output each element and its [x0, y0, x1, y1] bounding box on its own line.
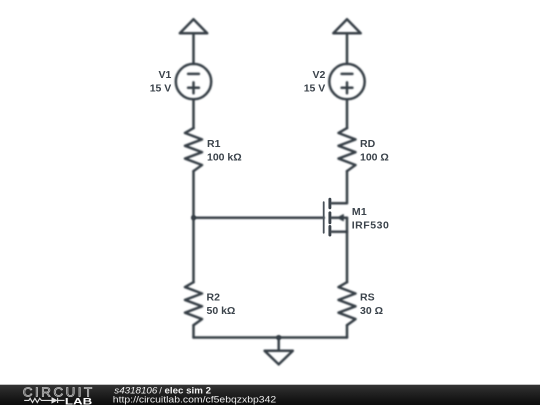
- resistor R2: [185, 282, 202, 325]
- wire ground stem: [277, 338, 280, 351]
- svg-text:R2: R2: [207, 292, 221, 304]
- node A junction dot: [191, 215, 196, 220]
- svg-text:100 Ω: 100 Ω: [360, 151, 389, 163]
- wire RD bottom to M1 drain: [331, 171, 347, 203]
- svg-text:V1: V1: [158, 69, 171, 81]
- transistor M1 channel bar source side: [328, 226, 331, 235]
- transistor M1: [331, 215, 347, 232]
- svg-text:RS: RS: [360, 292, 375, 304]
- svg-text:30 Ω: 30 Ω: [360, 305, 383, 317]
- svg-text:100 kΩ: 100 kΩ: [207, 151, 242, 163]
- transistor M1 channel bar body: [328, 213, 331, 223]
- svg-text:IRF530: IRF530: [352, 220, 390, 232]
- wire V2 bottom to RD top: [346, 99, 349, 128]
- wire V2 flag to V2 top: [346, 33, 349, 64]
- svg-text:15 V: 15 V: [150, 83, 172, 95]
- wire gate: node A to M1 gate: [194, 216, 324, 219]
- wire R2 bottom lead: [192, 325, 195, 337]
- wire RS bottom lead: [346, 325, 349, 337]
- wire V1 flag to V1 top: [192, 33, 195, 64]
- ground junction dot: [276, 335, 281, 340]
- resistor RS: [339, 282, 356, 325]
- transistor M1 gate bar: [323, 202, 325, 233]
- ground symbol: [265, 351, 293, 365]
- power flag triangle above V2: [333, 19, 360, 33]
- svg-text:http://circuitlab.com/cf5ebqzx: http://circuitlab.com/cf5ebqzxbp342: [113, 394, 276, 404]
- wire V1 bottom to R1 top: [192, 99, 195, 128]
- wire M1 source to RS top: [346, 232, 349, 283]
- svg-text:V2: V2: [312, 69, 325, 81]
- svg-text:15 V: 15 V: [304, 83, 326, 95]
- svg-text:50 kΩ: 50 kΩ: [207, 305, 236, 317]
- svg-text:LAB: LAB: [65, 395, 93, 405]
- voltage source V1: [176, 64, 211, 99]
- svg-text:R1: R1: [207, 138, 221, 150]
- voltage source V2: [329, 64, 364, 99]
- transistor M1 channel bar drain side: [328, 199, 331, 208]
- CircuitLab logo resistor-diode squiggle: [24, 398, 64, 403]
- resistor R1: [185, 128, 202, 171]
- footer title line s4318106 / elec sim 2: [114, 385, 211, 395]
- svg-text:M1: M1: [352, 206, 367, 218]
- wire bottom rail: [194, 336, 348, 339]
- footer black bar: [0, 385, 540, 405]
- resistor RD: [339, 128, 356, 171]
- power flag triangle above V1: [180, 19, 207, 33]
- svg-text:RD: RD: [360, 138, 376, 150]
- wire R1 bottom through node A to R2 top: [192, 171, 195, 282]
